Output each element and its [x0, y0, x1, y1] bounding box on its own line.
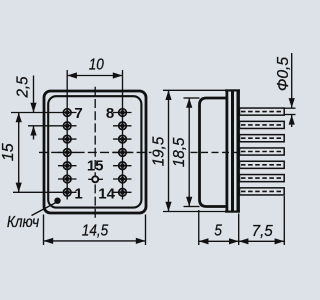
svg-text:15: 15 — [0, 143, 17, 161]
svg-text:Ф0,5: Ф0,5 — [275, 57, 292, 91]
svg-text:10: 10 — [89, 57, 105, 74]
svg-text:14: 14 — [98, 185, 115, 202]
svg-text:1: 1 — [74, 185, 82, 202]
svg-text:19,5: 19,5 — [150, 136, 167, 166]
svg-text:14,5: 14,5 — [82, 222, 109, 239]
svg-text:7,5: 7,5 — [252, 223, 273, 240]
svg-text:Ключ: Ключ — [7, 214, 40, 231]
svg-text:7: 7 — [74, 105, 82, 122]
svg-text:15: 15 — [87, 158, 104, 175]
svg-text:8: 8 — [106, 105, 114, 122]
svg-text:18,5: 18,5 — [171, 137, 188, 167]
svg-text:5: 5 — [214, 223, 222, 240]
svg-text:2,5: 2,5 — [14, 76, 31, 98]
